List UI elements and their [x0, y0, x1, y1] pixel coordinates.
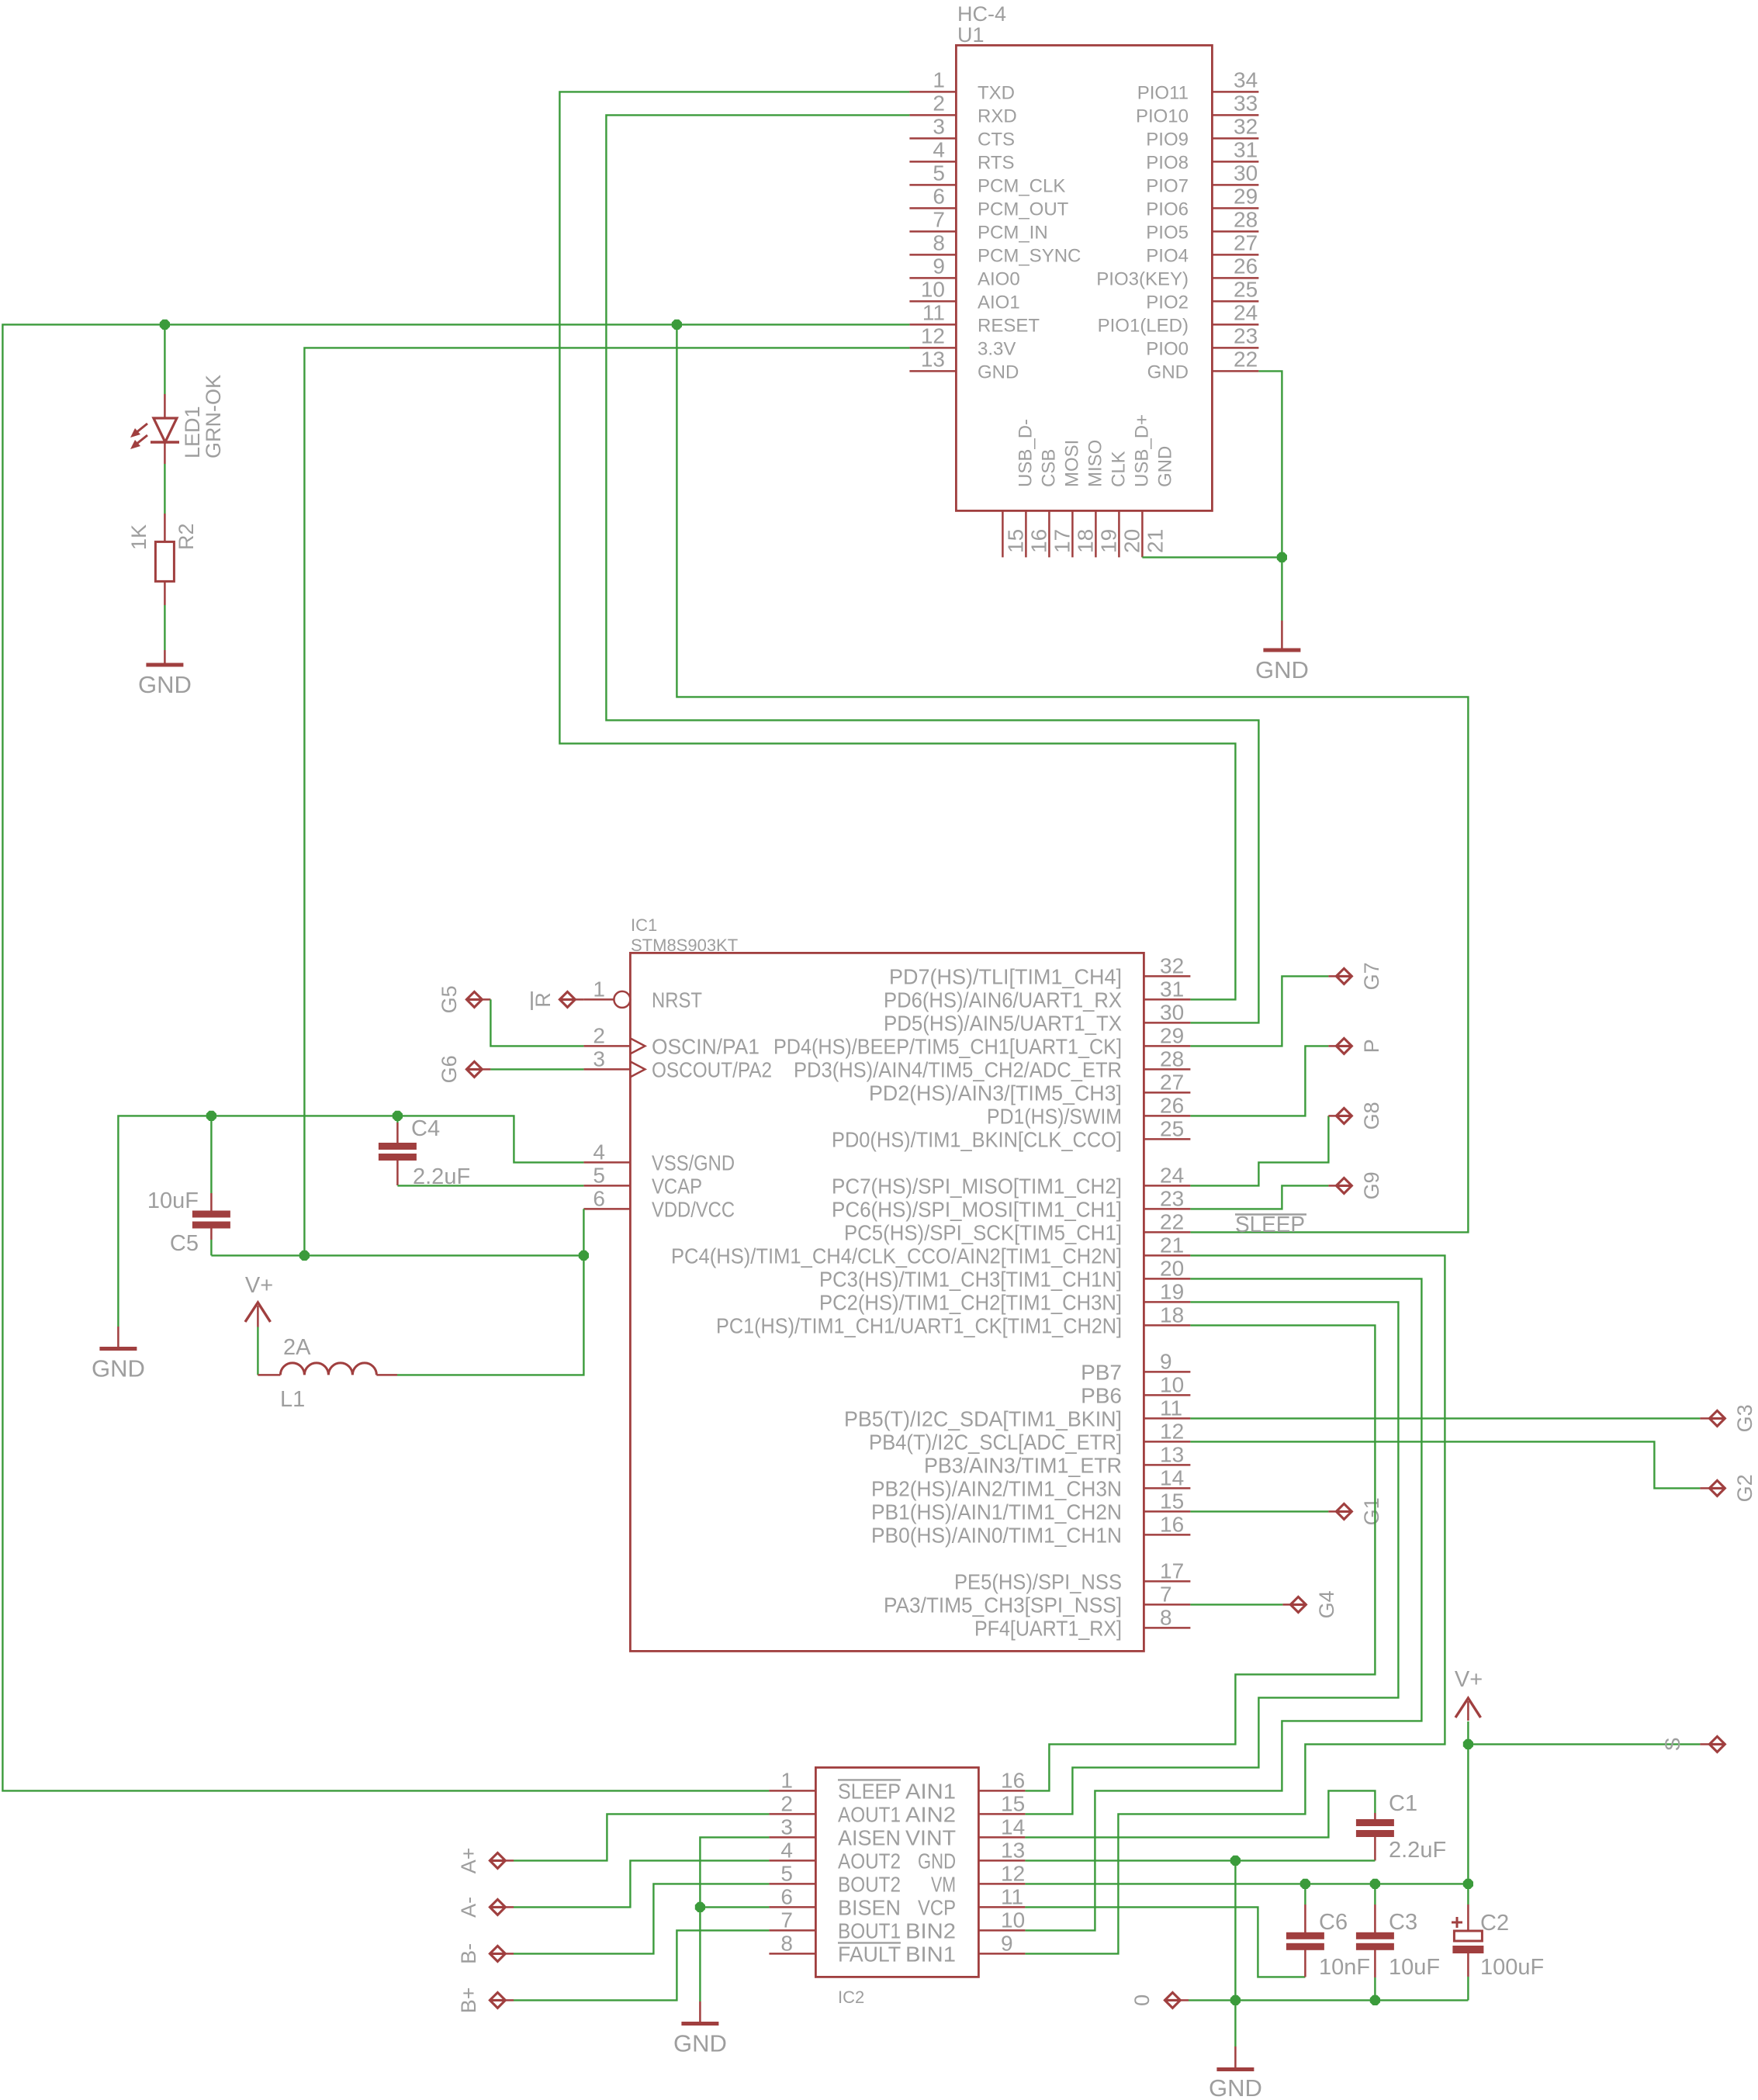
wire net SLEEP branch to IC1 pin22 PC5 — [677, 324, 1468, 1232]
IC1 pin 5 VCAP — [583, 1185, 630, 1187]
svg-text:SLEEP: SLEEP — [1235, 1213, 1305, 1237]
IC1 pin 17 PE5(HS)/SPI_NSS — [1144, 1580, 1190, 1583]
port G5 diamond — [466, 991, 482, 1007]
port 0 diamond — [1165, 1992, 1180, 2008]
capacitor C5 10uF — [210, 1116, 212, 1193]
IC2 pin 3 AISEN — [769, 1836, 815, 1839]
svg-text:1: 1 — [780, 1768, 793, 1792]
svg-text:3: 3 — [780, 1815, 793, 1839]
U1 pin 30 PIO7 — [1212, 184, 1258, 186]
svg-text:34: 34 — [1234, 67, 1258, 92]
svg-text:PC5(HS)/SPI_SCK[TIM5_CH1]: PC5(HS)/SPI_SCK[TIM5_CH1] — [844, 1220, 1122, 1244]
junction V+ S node — [1463, 1739, 1473, 1749]
svg-text:26: 26 — [1234, 254, 1258, 278]
svg-text:CSB: CSB — [1038, 449, 1059, 487]
svg-text:26: 26 — [1160, 1093, 1184, 1117]
IC2 pin 13 GND — [978, 1860, 1025, 1862]
junction GND wire — [1277, 552, 1287, 562]
svg-text:28: 28 — [1160, 1047, 1184, 1071]
capacitor C6 10nF — [1304, 1884, 1306, 1905]
IC1 pin 21 PC4(HS)/TIM1_CH4/CLK_CCO/AIN2[TIM1_CH2N] — [1144, 1254, 1190, 1257]
svg-text:27: 27 — [1234, 230, 1258, 254]
svg-text:GND: GND — [978, 362, 1019, 382]
U1 pin 22 GND — [1212, 370, 1258, 372]
svg-text:16: 16 — [1026, 529, 1050, 553]
svg-text:3: 3 — [593, 1047, 605, 1071]
U1 pin 6 PCM_OUT — [909, 207, 956, 209]
U1 pin 2 RXD — [909, 114, 956, 116]
svg-text:20: 20 — [1160, 1256, 1184, 1280]
svg-text:10: 10 — [1160, 1372, 1184, 1396]
svg-text:7: 7 — [933, 207, 945, 231]
svg-text:9: 9 — [933, 254, 945, 278]
port A- diamond — [490, 1899, 505, 1915]
svg-text:P: P — [1360, 1039, 1383, 1053]
svg-text:R: R — [531, 992, 555, 1008]
svg-text:0: 0 — [1130, 1994, 1154, 2006]
svg-text:PD6(HS)/AIN6/UART1_RX: PD6(HS)/AIN6/UART1_RX — [884, 988, 1122, 1012]
svg-text:10: 10 — [921, 277, 945, 301]
U1 pin 4 RTS — [909, 161, 956, 163]
svg-text:PC7(HS)/SPI_MISO[TIM1_CH2]: PC7(HS)/SPI_MISO[TIM1_CH2] — [832, 1174, 1122, 1198]
U1 pin 21 GND — [1141, 510, 1144, 557]
svg-text:GRN-OK: GRN-OK — [202, 375, 225, 458]
svg-text:28: 28 — [1234, 207, 1258, 231]
IC2 pin 9 BIN1 — [978, 1953, 1025, 1955]
svg-text:B-: B- — [457, 1943, 480, 1964]
wire net RXD: U1 pin2 to IC1 pin30 PD5/UART1_TX — [606, 115, 1258, 1022]
svg-text:19: 19 — [1160, 1279, 1184, 1303]
svg-text:14: 14 — [1160, 1465, 1184, 1489]
svg-text:PE5(HS)/SPI_NSS: PE5(HS)/SPI_NSS — [954, 1569, 1122, 1593]
svg-text:G8: G8 — [1360, 1102, 1383, 1130]
svg-text:C3: C3 — [1389, 1910, 1417, 1935]
svg-text:PD2(HS)/AIN3/[TIM5_CH3]: PD2(HS)/AIN3/[TIM5_CH3] — [869, 1081, 1122, 1105]
U1 pin 23 PIO0 — [1212, 347, 1258, 349]
port R diamond to IC1 pin1 NRST — [559, 991, 575, 1007]
svg-text:13: 13 — [1160, 1442, 1184, 1466]
svg-text:16: 16 — [1160, 1512, 1184, 1536]
U1 pin 28 PIO5 — [1212, 230, 1258, 233]
svg-text:PIO6: PIO6 — [1146, 199, 1189, 220]
svg-text:AIN1: AIN1 — [905, 1779, 956, 1803]
svg-text:PIO5: PIO5 — [1146, 222, 1189, 243]
svg-text:IC2: IC2 — [838, 1988, 864, 2007]
wire net BIN2: IC1 pin20 to IC2 pin10 — [1025, 1278, 1421, 1930]
svg-text:6: 6 — [593, 1186, 605, 1210]
svg-text:12: 12 — [1160, 1419, 1184, 1443]
wire U1 pin22 GND down to ground — [1258, 371, 1282, 621]
svg-text:PD7(HS)/TLI[TIM1_CH4]: PD7(HS)/TLI[TIM1_CH4] — [889, 964, 1122, 988]
svg-text:PB0(HS)/AIN0/TIM1_CH1N: PB0(HS)/AIN0/TIM1_CH1N — [871, 1523, 1122, 1547]
svg-text:PIO10: PIO10 — [1136, 106, 1189, 126]
IC1 pin 23 PC6(HS)/SPI_MOSI[TIM1_CH1] — [1144, 1208, 1190, 1210]
svg-text:2A: 2A — [283, 1335, 311, 1360]
svg-text:6: 6 — [780, 1884, 793, 1908]
svg-text:PB1(HS)/AIN1/TIM1_CH2N: PB1(HS)/AIN1/TIM1_CH2N — [871, 1500, 1122, 1524]
svg-text:22: 22 — [1234, 347, 1258, 371]
svg-text:8: 8 — [780, 1931, 793, 1955]
IC2 pin 7 BOUT1 — [769, 1929, 815, 1932]
IC2 pin 14 VINT — [978, 1836, 1025, 1839]
svg-text:6: 6 — [933, 184, 945, 208]
junction GND at C4 — [393, 1111, 403, 1121]
svg-text:HC-4: HC-4 — [957, 2, 1006, 26]
svg-text:33: 33 — [1234, 91, 1258, 115]
svg-text:PC4(HS)/TIM1_CH4/CLK_CCO/AIN2[: PC4(HS)/TIM1_CH4/CLK_CCO/AIN2[TIM1_CH2N] — [671, 1244, 1122, 1268]
svg-text:3.3V: 3.3V — [978, 338, 1016, 359]
wire net G9 — [1190, 1185, 1328, 1209]
port G8 diamond — [1336, 1108, 1351, 1123]
port G3 diamond — [1709, 1410, 1725, 1426]
capacitor C3 10uF — [1374, 1884, 1376, 1905]
wire net G6 to IC1 pin3 OSCOUT — [490, 1068, 583, 1070]
svg-text:10uF: 10uF — [147, 1188, 199, 1213]
IC1 pin 27 PD2(HS)/AIN3/[TIM5_CH3] — [1144, 1092, 1190, 1094]
junction GND row — [1230, 1856, 1241, 1866]
wire V+ node down to VM row — [1467, 1744, 1469, 1884]
IC1 pin 6 VDD/VCC — [583, 1208, 630, 1210]
IC1 pin 31 PD6(HS)/AIN6/UART1_RX — [1144, 998, 1190, 1001]
svg-text:2: 2 — [933, 91, 945, 115]
svg-text:PIO3(KEY): PIO3(KEY) — [1096, 268, 1189, 289]
svg-text:24: 24 — [1234, 300, 1258, 324]
wire net VCAP: C4 to IC1 pin5 — [397, 1185, 583, 1186]
U1 pin 27 PIO4 — [1212, 254, 1258, 256]
svg-text:13: 13 — [1001, 1838, 1025, 1862]
IC1 pin 15 PB1(HS)/AIN1/TIM1_CH2N — [1144, 1510, 1190, 1513]
wire net BIN1: IC1 pin21 to IC2 pin9 — [1025, 1255, 1445, 1953]
port B+ diamond — [490, 1992, 505, 2008]
svg-text:12: 12 — [1001, 1861, 1025, 1885]
port P diamond — [1336, 1038, 1351, 1053]
svg-text:8: 8 — [933, 230, 945, 254]
svg-text:BOUT2: BOUT2 — [838, 1872, 901, 1896]
port G1 diamond — [1336, 1503, 1351, 1519]
svg-text:4: 4 — [933, 137, 945, 161]
wire net VINT: IC2 pin14 to C1 — [1025, 1790, 1375, 1837]
U1 pin 5 PCM_CLK — [909, 184, 956, 186]
IC2 pin 1 SLEEP — [769, 1790, 815, 1792]
IC1 pin 22 PC5(HS)/SPI_SCK[TIM5_CH1] — [1144, 1231, 1190, 1233]
junction VM at C2 V+ — [1463, 1879, 1473, 1889]
svg-text:G3: G3 — [1733, 1404, 1756, 1432]
wire net B+ — [514, 1930, 769, 2000]
label C2 plus sign — [1452, 1917, 1462, 1928]
svg-text:25: 25 — [1160, 1116, 1184, 1140]
svg-text:100uF: 100uF — [1480, 1955, 1544, 1980]
IC1 pin 9 PB7 — [1144, 1371, 1190, 1373]
svg-text:PD3(HS)/AIN4/TIM5_CH2/ADC_ETR: PD3(HS)/AIN4/TIM5_CH2/ADC_ETR — [794, 1057, 1122, 1081]
wire net TXD: U1 pin1 to IC1 pin31 PD6/UART1_RX — [559, 92, 1235, 999]
svg-text:USB_D-: USB_D- — [1015, 419, 1036, 487]
IC2 pin 2 AOUT1 — [769, 1813, 815, 1815]
IC1 pin 20 PC3(HS)/TIM1_CH3[TIM1_CH1N] — [1144, 1278, 1190, 1280]
svg-text:1: 1 — [593, 977, 605, 1001]
wire net AIN2: IC1 pin19 to IC2 pin15 — [1025, 1302, 1398, 1814]
svg-text:PC2(HS)/TIM1_CH2[TIM1_CH3N]: PC2(HS)/TIM1_CH2[TIM1_CH3N] — [819, 1290, 1122, 1314]
wire net VM row: IC2 pin12 to caps and V+ — [1025, 1883, 1468, 1884]
svg-text:V+: V+ — [1455, 1667, 1483, 1692]
svg-text:22: 22 — [1160, 1209, 1184, 1233]
wire net AISEN/BISEN to ground — [700, 1837, 769, 2001]
port G9 diamond — [1336, 1178, 1351, 1193]
junction 0 at GND stem — [1230, 1995, 1241, 2005]
svg-text:GND: GND — [1147, 362, 1189, 382]
wire net G1 — [1190, 1510, 1328, 1512]
svg-text:PB2(HS)/AIN2/TIM1_CH3N: PB2(HS)/AIN2/TIM1_CH3N — [871, 1476, 1122, 1500]
svg-text:PCM_IN: PCM_IN — [978, 222, 1048, 243]
svg-text:31: 31 — [1234, 137, 1258, 161]
junction on RESET net at SLEEP branch — [672, 320, 682, 330]
svg-text:VINT: VINT — [905, 1825, 956, 1849]
wire net VCP: IC2 pin11 to C6 bottom — [1025, 1907, 1305, 1977]
svg-text:PC3(HS)/TIM1_CH3[TIM1_CH1N]: PC3(HS)/TIM1_CH3[TIM1_CH1N] — [819, 1267, 1122, 1291]
resistor R2 1K — [164, 514, 166, 541]
svg-text:PB7: PB7 — [1081, 1360, 1122, 1384]
svg-text:25: 25 — [1234, 277, 1258, 301]
svg-text:PIO0: PIO0 — [1146, 338, 1189, 359]
wire R2 to ground — [164, 605, 165, 650]
svg-text:17: 17 — [1160, 1559, 1184, 1583]
svg-text:BOUT1: BOUT1 — [838, 1918, 901, 1943]
wire net P — [1190, 1046, 1328, 1116]
IC2 pin 16 AIN1 — [978, 1790, 1025, 1792]
junction VDD at L1 branch — [579, 1251, 589, 1261]
IC1 pin 8 PF4[UART1_RX] — [1144, 1627, 1190, 1629]
svg-text:10: 10 — [1001, 1908, 1025, 1932]
svg-text:PB4(T)/I2C_SCL[ADC_ETR]: PB4(T)/I2C_SCL[ADC_ETR] — [869, 1430, 1122, 1454]
svg-text:PIO9: PIO9 — [1146, 129, 1189, 150]
U1 pin 1 TXD — [909, 91, 956, 93]
svg-text:PCM_CLK: PCM_CLK — [978, 175, 1065, 196]
port G4 diamond — [1290, 1597, 1306, 1612]
port B- diamond — [490, 1946, 505, 1961]
junction VDD at 3.3V drop — [299, 1251, 310, 1261]
wire net 0 row — [1189, 1999, 1468, 2001]
IC1 pin 12 PB4(T)/I2C_SCL[ADC_ETR] — [1144, 1441, 1190, 1443]
svg-text:VCP: VCP — [918, 1895, 956, 1919]
IC1 pin 1 NRST — [583, 998, 614, 1001]
svg-text:PD0(HS)/TIM1_BKIN[CLK_CCO]: PD0(HS)/TIM1_BKIN[CLK_CCO] — [832, 1127, 1122, 1151]
svg-text:AOUT1: AOUT1 — [838, 1802, 901, 1826]
svg-text:4: 4 — [593, 1140, 605, 1164]
svg-text:FAULT: FAULT — [838, 1942, 901, 1966]
capacitor C2 100uF polarized — [1467, 1884, 1469, 1905]
svg-text:OSCOUT/PA2: OSCOUT/PA2 — [652, 1057, 772, 1081]
wire net G4 — [1190, 1604, 1282, 1605]
junction VM at C3 — [1370, 1879, 1380, 1889]
svg-text:PB5(T)/I2C_SDA[TIM1_BKIN]: PB5(T)/I2C_SDA[TIM1_BKIN] — [844, 1406, 1122, 1431]
svg-text:29: 29 — [1160, 1023, 1184, 1047]
IC2 pin 15 AIN2 — [978, 1813, 1025, 1815]
U1 pin 20 USB_D+ — [1118, 510, 1120, 557]
svg-text:C6: C6 — [1319, 1910, 1348, 1935]
svg-text:9: 9 — [1001, 1931, 1013, 1955]
wire net G5 to IC1 pin2 OSCIN — [490, 999, 583, 1046]
wire net G7 — [1190, 976, 1328, 1046]
svg-text:C1: C1 — [1389, 1791, 1417, 1816]
svg-text:GND: GND — [138, 671, 192, 698]
U1 pin 33 PIO10 — [1212, 114, 1258, 116]
IC2 pin 11 VCP — [978, 1906, 1025, 1908]
svg-text:G1: G1 — [1360, 1497, 1383, 1525]
IC2 pin 12 VM — [978, 1883, 1025, 1885]
ground GND below U1 — [1281, 621, 1283, 650]
wire net AIN1: IC1 pin18 to IC2 pin16 — [1025, 1325, 1375, 1790]
svg-text:BIN1: BIN1 — [905, 1942, 956, 1966]
wire LED1 to R2 — [164, 464, 165, 514]
svg-text:NRST: NRST — [652, 988, 702, 1012]
svg-text:G6: G6 — [438, 1055, 461, 1083]
capacitor C4 2.2uF — [396, 1116, 398, 1123]
svg-text:PD4(HS)/BEEP/TIM5_CH1[UART1_CK: PD4(HS)/BEEP/TIM5_CH1[UART1_CK] — [773, 1034, 1122, 1058]
svg-text:AIO0: AIO0 — [978, 268, 1020, 289]
svg-text:AISEN: AISEN — [838, 1825, 901, 1849]
IC2 pin 8 FAULT — [769, 1953, 815, 1955]
wire BISEN segment — [700, 1906, 769, 1908]
U1 pin 10 AIO1 — [909, 300, 956, 303]
svg-text:18: 18 — [1073, 529, 1097, 553]
svg-text:1K: 1K — [127, 524, 151, 550]
svg-text:12: 12 — [921, 323, 945, 348]
svg-text:RXD: RXD — [978, 106, 1017, 126]
svg-text:C2: C2 — [1480, 1911, 1509, 1936]
wire net G2 — [1190, 1441, 1700, 1488]
svg-text:GND: GND — [918, 1849, 956, 1873]
svg-text:4: 4 — [780, 1838, 793, 1862]
svg-text:24: 24 — [1160, 1163, 1184, 1187]
inductor L1 2A — [258, 1374, 280, 1376]
U1 pin 19 CLK — [1095, 510, 1097, 557]
U1 pin 3 CTS — [909, 137, 956, 140]
svg-text:A+: A+ — [457, 1848, 480, 1874]
svg-text:23: 23 — [1160, 1186, 1184, 1210]
svg-text:A-: A- — [457, 1897, 480, 1918]
svg-text:CLK: CLK — [1108, 451, 1129, 487]
svg-text:GND: GND — [1255, 656, 1309, 683]
svg-text:V+: V+ — [245, 1273, 273, 1298]
U1 pin 25 PIO2 — [1212, 300, 1258, 303]
ground GND below R2 — [164, 650, 166, 665]
svg-text:PC1(HS)/TIM1_CH1/UART1_CK[TIM1: PC1(HS)/TIM1_CH1/UART1_CK[TIM1_CH2N] — [716, 1313, 1122, 1337]
svg-text:GND: GND — [673, 2030, 727, 2057]
port S diamond — [1709, 1736, 1725, 1752]
U1 pin 32 PIO9 — [1212, 137, 1258, 140]
wire net A- — [514, 1860, 769, 1907]
wire V+ stem to junction — [1467, 1721, 1469, 1744]
wire net G3 — [1190, 1417, 1700, 1419]
svg-text:PIO7: PIO7 — [1146, 175, 1189, 196]
wire net G8 — [1190, 1116, 1328, 1185]
svg-text:21: 21 — [1143, 529, 1167, 553]
driver IC2 outline — [815, 1767, 978, 1977]
U1 pin 11 RESET — [909, 323, 956, 326]
svg-text:27: 27 — [1160, 1070, 1184, 1094]
svg-text:MISO: MISO — [1085, 440, 1106, 487]
IC1 pin 25 PD0(HS)/TIM1_BKIN[CLK_CCO] — [1144, 1138, 1190, 1140]
svg-text:29: 29 — [1234, 184, 1258, 208]
svg-text:LED1: LED1 — [181, 406, 204, 458]
capacitor C1 2.2uF — [1374, 1813, 1376, 1819]
IC1 pin 3 OSCOUT/PA2 — [583, 1068, 630, 1071]
LED LED1 GRN-OK — [164, 394, 166, 418]
svg-text:PIO1(LED): PIO1(LED) — [1098, 315, 1189, 336]
svg-text:B+: B+ — [457, 1988, 480, 2014]
svg-text:PIO4: PIO4 — [1146, 245, 1189, 266]
U1 pin 26 PIO3(KEY) — [1212, 277, 1258, 279]
svg-text:31: 31 — [1160, 977, 1184, 1001]
U1 pin 16 CSB — [1025, 510, 1027, 557]
svg-text:11: 11 — [1160, 1396, 1182, 1420]
port G7 diamond — [1336, 968, 1351, 984]
IC1 pin 14 PB2(HS)/AIN2/TIM1_CH3N — [1144, 1487, 1190, 1489]
svg-text:PD5(HS)/AIN5/UART1_TX: PD5(HS)/AIN5/UART1_TX — [884, 1011, 1122, 1035]
svg-text:30: 30 — [1160, 1000, 1184, 1024]
svg-text:G4: G4 — [1315, 1590, 1338, 1618]
svg-text:S: S — [1661, 1737, 1684, 1751]
svg-text:R2: R2 — [175, 523, 198, 550]
svg-text:1: 1 — [933, 67, 945, 92]
wire V+ to L1 — [257, 1327, 258, 1375]
svg-text:5: 5 — [933, 161, 945, 185]
svg-text:G2: G2 — [1733, 1474, 1756, 1502]
svg-text:2: 2 — [593, 1023, 605, 1047]
svg-text:USB_D+: USB_D+ — [1131, 414, 1152, 487]
svg-text:32: 32 — [1234, 114, 1258, 138]
svg-text:3: 3 — [933, 114, 945, 138]
mcu IC1 STM8S903KT outline — [630, 953, 1144, 1651]
ground GND bottom — [1234, 2046, 1237, 2070]
U1 pin 31 PIO8 — [1212, 161, 1258, 163]
junction 0 at C3 bottom — [1370, 1995, 1380, 2005]
svg-text:AIN2: AIN2 — [905, 1802, 956, 1826]
svg-text:BIN2: BIN2 — [905, 1918, 956, 1943]
svg-text:23: 23 — [1234, 323, 1258, 348]
ground GND below IC2 — [699, 2001, 701, 2024]
svg-text:U1: U1 — [957, 23, 985, 47]
wire net SLEEP/RESET: U1 pin11 across left edge to IC2 pin1 SLEEP — [2, 324, 909, 1790]
IC1 pin 30 PD5(HS)/AIN5/UART1_TX — [1144, 1022, 1190, 1024]
wire net B- — [514, 1884, 769, 1953]
U1 pin 15 USB_D- — [1002, 510, 1004, 557]
wire GND stem from GND row to 0 row and ground — [1234, 1860, 1236, 2000]
junction GND at C5 — [206, 1111, 216, 1121]
svg-text:C5: C5 — [170, 1231, 199, 1256]
svg-text:VCAP: VCAP — [652, 1174, 702, 1198]
svg-text:11: 11 — [922, 300, 945, 324]
U1 pin 17 MOSI — [1048, 510, 1050, 557]
svg-text:30: 30 — [1234, 161, 1258, 185]
svg-text:IC1: IC1 — [631, 915, 657, 935]
svg-text:GND: GND — [1209, 2074, 1262, 2100]
svg-text:BISEN: BISEN — [838, 1895, 901, 1919]
IC1 pin 7 PA3/TIM5_CH3[SPI_NSS] — [1144, 1604, 1190, 1606]
wire LED branch from RESET net — [164, 324, 165, 394]
junction VM at C6 — [1300, 1879, 1310, 1889]
IC1 pin 19 PC2(HS)/TIM1_CH2[TIM1_CH3N] — [1144, 1301, 1190, 1303]
svg-text:9: 9 — [1160, 1349, 1172, 1373]
svg-text:21: 21 — [1160, 1233, 1184, 1257]
wire net 3.3V: U1 pin12 down to VDD node — [304, 348, 909, 1255]
wire U1 pin21 bottom GND to ground wire — [1142, 556, 1282, 558]
svg-text:8: 8 — [1160, 1605, 1172, 1629]
svg-text:TXD: TXD — [978, 82, 1015, 103]
svg-text:PCM_SYNC: PCM_SYNC — [978, 245, 1081, 266]
IC1 pin 28 PD3(HS)/AIN4/TIM5_CH2/ADC_ETR — [1144, 1068, 1190, 1071]
svg-text:L1: L1 — [280, 1387, 305, 1412]
U1 pin 18 MISO — [1071, 510, 1074, 557]
